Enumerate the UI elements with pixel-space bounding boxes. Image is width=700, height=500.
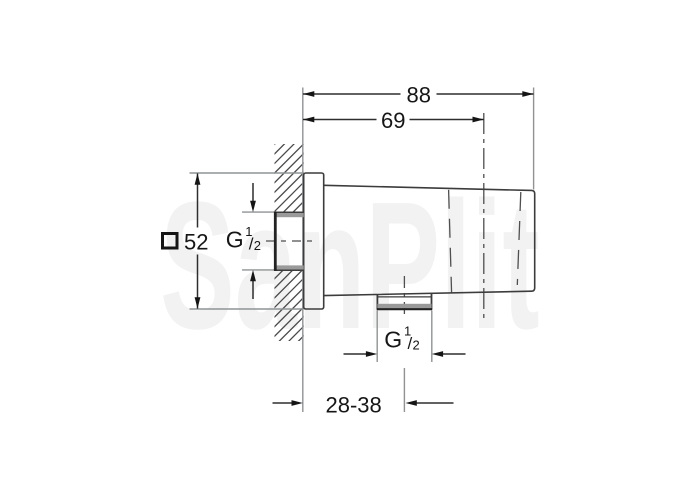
svg-text:G: G [384,326,402,352]
svg-text:28-38: 28-38 [326,392,382,417]
escutcheon flange [304,173,324,309]
inlet connector thread bottom [274,265,304,269]
inlet connector end face [274,212,277,271]
svg-text:SanPlit: SanPlit [160,164,540,366]
dimension labels [184,83,431,418]
svg-text:2: 2 [413,337,420,352]
arrowheads outlet G1/2 [366,351,377,357]
arrowheads dimension 52 [195,173,201,184]
inlet connector thread top [274,211,304,213]
arrowheads dimension 69 [303,117,314,123]
hidden edge left [449,190,452,294]
center line outlet [403,276,405,318]
dimension lines [198,94,534,403]
square symbol [163,234,178,249]
label G 1/2 outlet [384,324,419,354]
watermark SanPlit [160,164,540,366]
arrowheads dimension 88 [303,91,314,97]
svg-text:2: 2 [254,238,261,253]
label G 1/2 inlet [226,224,261,254]
wall hatching lower [0,122,700,352]
svg-text:52: 52 [184,229,208,254]
outlet nipple [376,295,378,310]
extension lines [190,88,534,413]
center line inlet [266,240,315,242]
svg-text:69: 69 [381,108,405,133]
svg-text:88: 88 [407,83,431,108]
arrowheads inlet G1/2 [250,201,256,212]
hidden edge right [517,192,521,285]
svg-text:G: G [226,227,244,253]
wall hatching upper [0,122,700,352]
holder body [324,185,535,295]
arrowheads dimension 28-38 [292,400,303,406]
center line vertical [483,113,485,322]
